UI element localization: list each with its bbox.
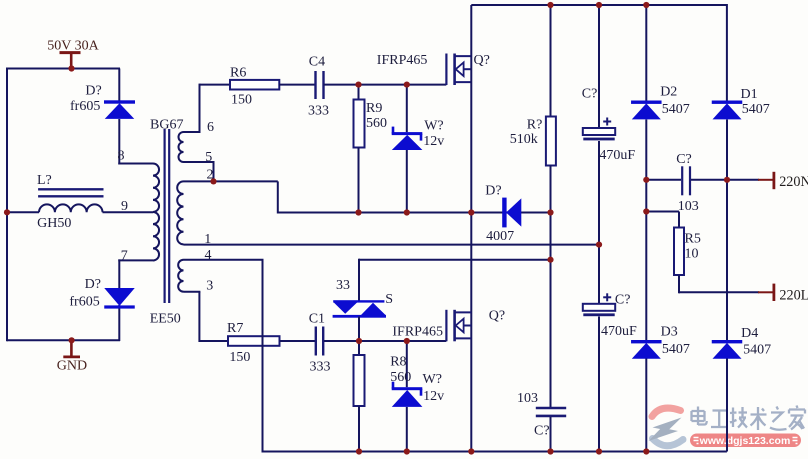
svg-text:R5: R5 xyxy=(685,232,701,247)
svg-text:103: 103 xyxy=(678,199,699,214)
svg-text:5407: 5407 xyxy=(662,342,690,357)
svg-text:470uF: 470uF xyxy=(599,148,635,163)
svg-text:S: S xyxy=(385,292,393,307)
svg-text:fr605: fr605 xyxy=(69,295,99,310)
svg-text:510k: 510k xyxy=(510,132,538,147)
svg-text:C1: C1 xyxy=(309,311,325,326)
svg-text:7: 7 xyxy=(121,248,128,263)
svg-text:1: 1 xyxy=(204,232,211,247)
svg-text:D3: D3 xyxy=(661,325,678,340)
svg-text:IFRP465: IFRP465 xyxy=(377,53,428,68)
svg-text:BG67: BG67 xyxy=(150,118,183,133)
svg-text:2: 2 xyxy=(207,167,214,182)
svg-text:470uF: 470uF xyxy=(601,324,637,339)
svg-text:W?: W? xyxy=(424,119,443,134)
svg-text:L?: L? xyxy=(37,173,52,188)
svg-text:D4: D4 xyxy=(741,326,758,341)
svg-text:5407: 5407 xyxy=(743,343,771,358)
svg-text:GH50: GH50 xyxy=(37,216,71,231)
svg-text:560: 560 xyxy=(366,116,387,131)
svg-text:C?: C? xyxy=(582,87,598,102)
svg-text:Q?: Q? xyxy=(474,53,490,68)
svg-text:103: 103 xyxy=(517,391,538,406)
svg-text:3: 3 xyxy=(206,278,213,293)
svg-text:C4: C4 xyxy=(309,54,325,69)
svg-text:W?: W? xyxy=(423,372,442,387)
svg-text:R6: R6 xyxy=(230,66,246,81)
svg-text:150: 150 xyxy=(229,350,250,365)
svg-text:C?: C? xyxy=(676,152,692,167)
svg-text:560: 560 xyxy=(390,370,411,385)
svg-text:9: 9 xyxy=(121,199,128,214)
svg-text:220N: 220N xyxy=(779,174,808,190)
svg-text:fr605: fr605 xyxy=(70,99,100,114)
svg-text:R9: R9 xyxy=(366,101,382,116)
svg-text:C?: C? xyxy=(615,293,631,308)
svg-text:12v: 12v xyxy=(423,134,444,149)
svg-text:Q?: Q? xyxy=(489,309,505,324)
svg-text:5: 5 xyxy=(205,150,212,165)
svg-text:GND: GND xyxy=(57,358,87,373)
svg-text:6: 6 xyxy=(207,120,214,135)
svg-text:D1: D1 xyxy=(741,87,758,102)
svg-text:D?: D? xyxy=(85,277,101,292)
svg-text:333: 333 xyxy=(308,104,329,119)
svg-text:IFRP465: IFRP465 xyxy=(392,324,443,339)
svg-text:4: 4 xyxy=(205,248,212,263)
svg-text:5407: 5407 xyxy=(662,102,690,117)
svg-text:333: 333 xyxy=(310,359,331,374)
svg-text:D?: D? xyxy=(85,83,101,98)
svg-text:D2: D2 xyxy=(660,85,677,100)
svg-text:8: 8 xyxy=(118,148,125,163)
svg-text:10: 10 xyxy=(685,247,699,262)
svg-text:R?: R? xyxy=(527,118,543,133)
svg-text:50V 30A: 50V 30A xyxy=(47,38,99,53)
svg-text:R8: R8 xyxy=(390,355,406,370)
svg-text:C?: C? xyxy=(534,424,550,439)
svg-text:R7: R7 xyxy=(227,321,243,336)
svg-text:150: 150 xyxy=(231,93,252,108)
svg-text:12v: 12v xyxy=(423,389,444,404)
svg-text:EE50: EE50 xyxy=(150,312,181,327)
svg-text:4007: 4007 xyxy=(486,229,514,244)
svg-text:33: 33 xyxy=(336,278,350,293)
svg-text:220L: 220L xyxy=(779,288,808,304)
svg-text:D?: D? xyxy=(485,184,501,199)
svg-text:www.dgjs123.com: www.dgjs123.com xyxy=(699,435,791,447)
svg-text:5407: 5407 xyxy=(742,102,770,117)
